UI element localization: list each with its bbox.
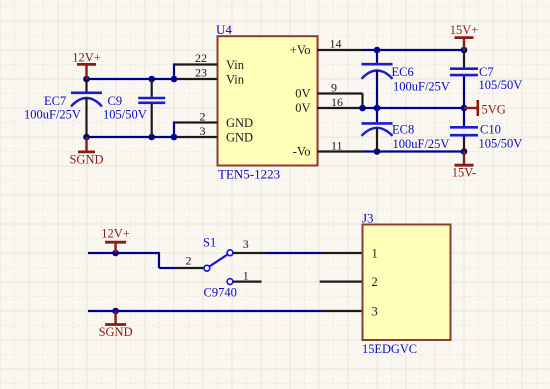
svg-text:2: 2 — [372, 275, 378, 289]
svg-text:100uF/25V: 100uF/25V — [24, 107, 81, 121]
svg-text:1: 1 — [372, 246, 378, 260]
svg-text:5VG: 5VG — [482, 102, 506, 116]
svg-text:C9: C9 — [108, 94, 123, 108]
svg-text:+Vo: +Vo — [290, 43, 311, 57]
svg-text:105/50V: 105/50V — [479, 137, 523, 151]
svg-text:100uF/25V: 100uF/25V — [393, 79, 450, 93]
svg-text:Vin: Vin — [226, 72, 245, 86]
svg-text:C10: C10 — [480, 123, 501, 137]
svg-text:11: 11 — [331, 138, 343, 152]
svg-text:16: 16 — [331, 95, 343, 109]
svg-text:3: 3 — [200, 124, 206, 138]
svg-text:3: 3 — [243, 237, 249, 251]
svg-text:15V-: 15V- — [452, 165, 477, 179]
svg-text:1: 1 — [243, 269, 249, 283]
svg-text:SGND: SGND — [99, 325, 133, 339]
svg-text:2: 2 — [186, 254, 192, 268]
svg-text:GND: GND — [226, 130, 253, 144]
svg-text:Vin: Vin — [226, 58, 245, 72]
svg-text:105/50V: 105/50V — [479, 78, 523, 92]
svg-text:J3: J3 — [362, 211, 374, 226]
svg-text:15V+: 15V+ — [450, 23, 479, 37]
svg-text:22: 22 — [195, 51, 207, 65]
svg-text:GND: GND — [226, 116, 253, 130]
svg-text:2: 2 — [200, 109, 206, 123]
svg-text:S1: S1 — [203, 235, 216, 249]
svg-text:C7: C7 — [479, 65, 494, 79]
svg-text:EC6: EC6 — [392, 65, 414, 79]
svg-text:9: 9 — [331, 80, 337, 94]
svg-text:14: 14 — [330, 36, 342, 50]
svg-text:U4: U4 — [216, 22, 232, 37]
svg-text:12V+: 12V+ — [101, 226, 130, 240]
svg-text:23: 23 — [195, 66, 207, 80]
svg-text:C9740: C9740 — [204, 286, 237, 300]
svg-text:EC7: EC7 — [44, 94, 66, 108]
svg-text:-Vo: -Vo — [293, 145, 311, 159]
svg-text:EC8: EC8 — [392, 123, 414, 137]
svg-text:TEN5-1223: TEN5-1223 — [218, 166, 280, 181]
svg-text:105/50V: 105/50V — [103, 107, 147, 121]
svg-text:15EDGVC: 15EDGVC — [362, 342, 417, 356]
svg-text:100uF/25V: 100uF/25V — [393, 137, 450, 151]
svg-text:3: 3 — [372, 304, 378, 318]
svg-text:0V: 0V — [295, 87, 310, 101]
svg-text:SGND: SGND — [69, 152, 103, 166]
svg-text:12V+: 12V+ — [72, 51, 101, 65]
svg-text:0V: 0V — [295, 101, 310, 115]
